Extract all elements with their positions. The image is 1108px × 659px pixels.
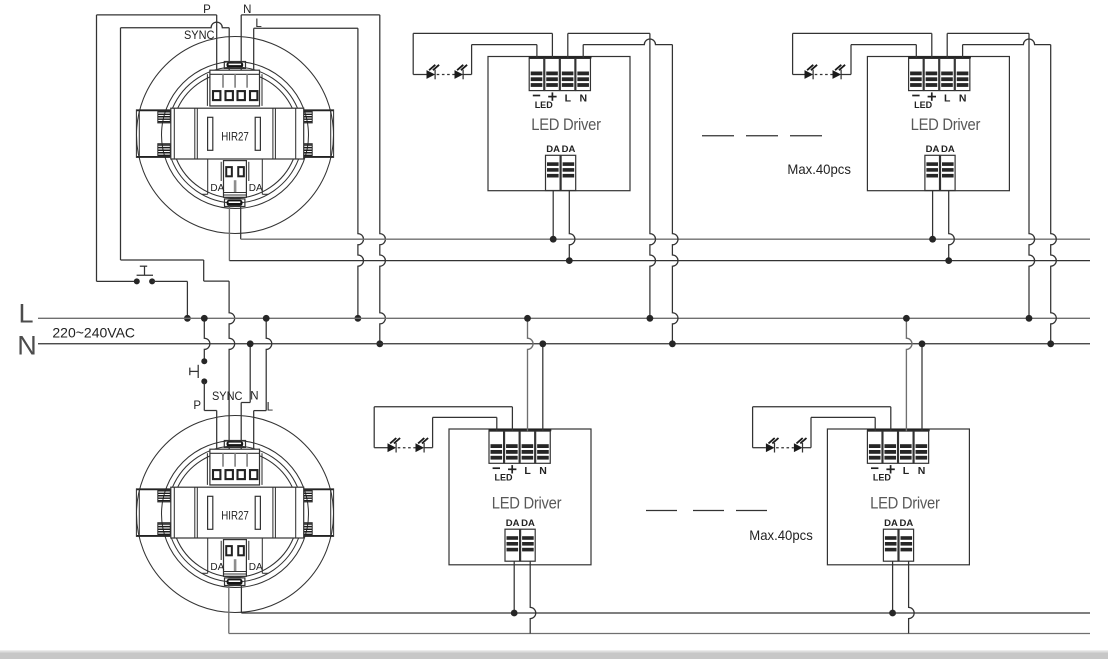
LED driver U4 enclosure — [827, 429, 969, 565]
wire N feed sensor 1 — [241, 15, 385, 344]
junction L2 on L rail — [263, 315, 270, 322]
sensor HIR27#1 outer ring — [137, 37, 334, 234]
LED driver U1 input labels - + L N LED — [533, 92, 587, 109]
sensor HIR27#2 inner ring — [162, 441, 309, 588]
LED D2b — [833, 70, 842, 79]
sensor HIR27#1 top connector — [207, 70, 262, 106]
wire P feed sensor 1 — [97, 15, 217, 282]
svg-text:DA: DA — [249, 562, 263, 573]
LED driver U2 enclosure — [867, 57, 1009, 191]
wire U1 LED+ feed — [413, 33, 552, 58]
svg-text:DA: DA — [900, 518, 914, 529]
svg-text:SYNC: SYNC — [212, 391, 243, 403]
LED driver U2 DA terminal block — [925, 155, 955, 190]
sensor HIR27#1 right spring clip — [300, 109, 334, 157]
LED D4a — [766, 443, 775, 452]
svg-text:N: N — [580, 92, 588, 104]
LED driver U2 input labels - + L N LED — [912, 92, 966, 109]
sensor HIR27#2 top connector — [207, 449, 262, 485]
wire S1 to L rail — [152, 281, 187, 318]
svg-text:DA: DA — [562, 144, 576, 155]
DALI bus rail 2 (top) — [229, 260, 1090, 262]
svg-text:HIR27: HIR27 — [221, 508, 249, 522]
sensor HIR27#2 outer ring — [137, 416, 334, 613]
sensor HIR27#1 top cable clamp — [224, 62, 245, 69]
junction S1-L — [184, 315, 191, 322]
junction U4 DA-a — [889, 610, 896, 617]
LED D1a — [427, 70, 436, 79]
continuation dashes (top) — [702, 135, 822, 137]
LED D2a — [805, 70, 814, 79]
svg-text:SYNC: SYNC — [184, 30, 215, 42]
LED D4b — [794, 443, 803, 452]
sensor HIR27#2 bottom cable clamp — [225, 578, 245, 586]
svg-text:L: L — [267, 402, 274, 414]
svg-text:LED Driver: LED Driver — [531, 116, 601, 134]
svg-text:L: L — [903, 465, 910, 477]
DALI bus rail 1 (bottom) — [241, 612, 1090, 614]
push-button S1 — [134, 266, 155, 284]
LED driver U3 input terminal block — [489, 430, 552, 463]
sensor HIR27#2 bottom connector — [221, 540, 249, 577]
junction U2 L — [1026, 315, 1033, 322]
LED D3a — [388, 443, 397, 452]
sensor HIR27#2 body — [171, 487, 304, 538]
sensor HIR27#1 lens band ends — [202, 160, 269, 195]
sensor HIR27#1 body — [171, 108, 304, 159]
N mains rail — [38, 343, 1090, 345]
svg-text:Max.40pcs: Max.40pcs — [787, 162, 851, 177]
page footer bar — [0, 650, 1108, 652]
wire U2 LED+ feed — [793, 33, 932, 58]
junction P2 on L rail — [201, 315, 208, 322]
svg-text:LED: LED — [495, 473, 514, 483]
wire U2 DA-b — [949, 191, 955, 261]
wire L feed sensor 2 — [254, 318, 272, 449]
wire U4 N from N rail — [921, 344, 923, 431]
LED driver U3 DA terminal block — [505, 529, 535, 561]
wire U1 L to L rail — [568, 33, 656, 318]
junction U3 DA-a — [511, 610, 518, 617]
LED driver U3 input labels - + L N LED — [493, 465, 547, 482]
svg-text:N: N — [250, 391, 258, 403]
LED driver U4 DA terminal block — [883, 529, 913, 561]
svg-text:LED: LED — [914, 100, 933, 110]
sensor HIR27 #1 (top) — [136, 37, 334, 234]
continuation dashes (bottom) — [646, 510, 767, 512]
LED string of driver U2 — [793, 33, 851, 74]
svg-text:LED Driver: LED Driver — [492, 494, 562, 512]
wire U4 L from L rail — [906, 318, 912, 431]
LED driver U3 enclosure — [449, 429, 591, 565]
sensor HIR27#2 lens band top — [173, 446, 298, 487]
svg-text:DA: DA — [926, 144, 940, 155]
wire DA-a sensor 2 to bottom DALI rail 1 — [240, 586, 242, 613]
wire U1 DA-a — [552, 191, 554, 240]
wire DA-b sensor 1 to DALI rail 2 — [228, 207, 230, 261]
wire L feed sensor 1 — [254, 28, 364, 318]
junction U3 L — [524, 315, 531, 322]
sensor HIR27#1 lens band bottom — [171, 159, 298, 203]
LED driver U3 DA labels — [506, 518, 535, 529]
wire U3 N from N rail — [542, 344, 544, 431]
LED driver U1 input terminal block — [529, 57, 592, 90]
junction U1 DA-a — [550, 236, 557, 243]
LED driver U2 input terminal block — [908, 57, 971, 90]
sensor HIR27#1 left spring clip — [136, 109, 170, 157]
wire U3 LED+ feed — [374, 407, 512, 431]
wire U3 L from L rail — [528, 318, 534, 431]
sensor HIR27#2 lens band bottom — [171, 538, 298, 582]
wire DA-b sensor 2 to bottom DALI rail 2 — [228, 586, 230, 634]
svg-text:LED Driver: LED Driver — [870, 494, 940, 512]
svg-text:Max.40pcs: Max.40pcs — [749, 528, 813, 543]
svg-text:N: N — [959, 92, 967, 104]
svg-text:L: L — [944, 92, 951, 104]
svg-text:220~240VAC: 220~240VAC — [52, 325, 135, 341]
DALI bus rail 1 (top) — [241, 238, 1090, 240]
LED string of driver U4 — [753, 407, 811, 448]
wire U2 LED- feed — [851, 45, 916, 59]
wire U4 LED- feed — [811, 417, 875, 431]
wire U1 N to N rail — [583, 39, 678, 344]
sensor HIR27#1 bottom connector — [221, 161, 249, 198]
wire SYNC sensor1 to sensor2 — [121, 22, 235, 441]
wire U2 L to L rail — [947, 33, 1034, 318]
svg-text:DA: DA — [210, 183, 224, 194]
sensor HIR27#2 lens band ends — [202, 539, 269, 574]
wire U4 DA-a — [892, 561, 894, 613]
junction U2 DA-a — [929, 236, 936, 243]
sensor HIR27#2 top cable clamp — [224, 441, 245, 448]
wire N feed sensor 2 — [241, 344, 250, 449]
LED D3b — [416, 443, 425, 452]
sensor HIR27 #2 (bottom) — [136, 416, 334, 613]
svg-text:N: N — [539, 465, 547, 477]
svg-text:DA: DA — [249, 183, 263, 194]
svg-text:LED: LED — [873, 473, 892, 483]
svg-text:N: N — [243, 4, 251, 16]
LED string of driver U3 — [374, 407, 432, 448]
LED D1b — [455, 70, 464, 79]
junction U2 N — [1047, 340, 1054, 347]
wire U3 DA-b — [530, 561, 536, 633]
L mains rail — [38, 317, 1090, 319]
junction U3 N — [539, 340, 546, 347]
junction U1 DA-b — [566, 257, 573, 264]
svg-text:P: P — [193, 400, 201, 412]
svg-text:DA: DA — [210, 562, 224, 573]
wire U3 LED- feed — [433, 417, 497, 431]
junction U4 N — [919, 340, 926, 347]
wire SYNC stub into sensor 2 — [228, 447, 230, 449]
svg-text:DA: DA — [521, 518, 535, 529]
junction L-feed on L rail — [355, 315, 362, 322]
svg-text:DA: DA — [941, 144, 955, 155]
junction U1 L — [647, 315, 654, 322]
svg-text:L: L — [524, 465, 531, 477]
wire DA-a sensor 1 to DALI rail 1 — [240, 207, 242, 240]
svg-text:DA: DA — [884, 518, 898, 529]
svg-text:LED Driver: LED Driver — [911, 116, 981, 134]
sensor HIR27#1 inner ring — [162, 62, 309, 209]
svg-text:N: N — [17, 331, 37, 361]
junction U4 L — [903, 315, 910, 322]
svg-text:L: L — [18, 299, 33, 329]
LED driver U1 enclosure — [488, 57, 630, 191]
junction N-feed on N rail — [376, 340, 383, 347]
wire U1 LED- feed — [472, 45, 537, 59]
svg-text:DA: DA — [546, 144, 560, 155]
sensor HIR27#1 DA terminal labels — [210, 183, 263, 194]
wire U2 DA-a — [932, 191, 934, 240]
LED driver U4 input terminal block — [867, 430, 930, 463]
LED driver U1 DA terminal block — [546, 155, 576, 190]
sensor HIR27#1 bottom cable clamp — [225, 199, 245, 207]
svg-text:DA: DA — [506, 518, 520, 529]
sensor HIR27#1 lens band top — [173, 67, 298, 108]
DALI bus rail 2 (bottom) — [229, 633, 1090, 635]
LED driver U2 DA labels — [926, 144, 955, 155]
wire U1 DA-b — [569, 191, 575, 261]
LED driver U4 input labels - + L N LED — [871, 465, 925, 482]
svg-text:HIR27: HIR27 — [221, 129, 249, 143]
wire S2 to sensor 2 P — [204, 381, 216, 449]
junction U2 DA-b — [945, 257, 952, 264]
sensor HIR27#2 DA terminal labels — [210, 562, 263, 573]
LED string of driver U1 — [413, 33, 471, 74]
wire U3 DA-a — [513, 561, 515, 613]
sensor HIR27#2 right spring clip — [300, 488, 334, 536]
wire U2 N to N rail — [963, 39, 1057, 344]
svg-text:L: L — [565, 92, 572, 104]
sensor HIR27#2 left spring clip — [136, 488, 170, 536]
wire U4 DA-b — [909, 561, 915, 633]
svg-text:N: N — [918, 465, 926, 477]
wire P feed sensor 2 from L rail — [204, 318, 210, 361]
LED driver U1 DA labels — [546, 144, 575, 155]
wire U4 LED+ feed — [753, 407, 891, 431]
LED driver U4 DA labels — [884, 518, 913, 529]
junction N2 on N rail — [247, 340, 254, 347]
junction U1 N — [669, 340, 676, 347]
push-button S2 — [190, 358, 208, 384]
svg-text:LED: LED — [535, 100, 554, 110]
